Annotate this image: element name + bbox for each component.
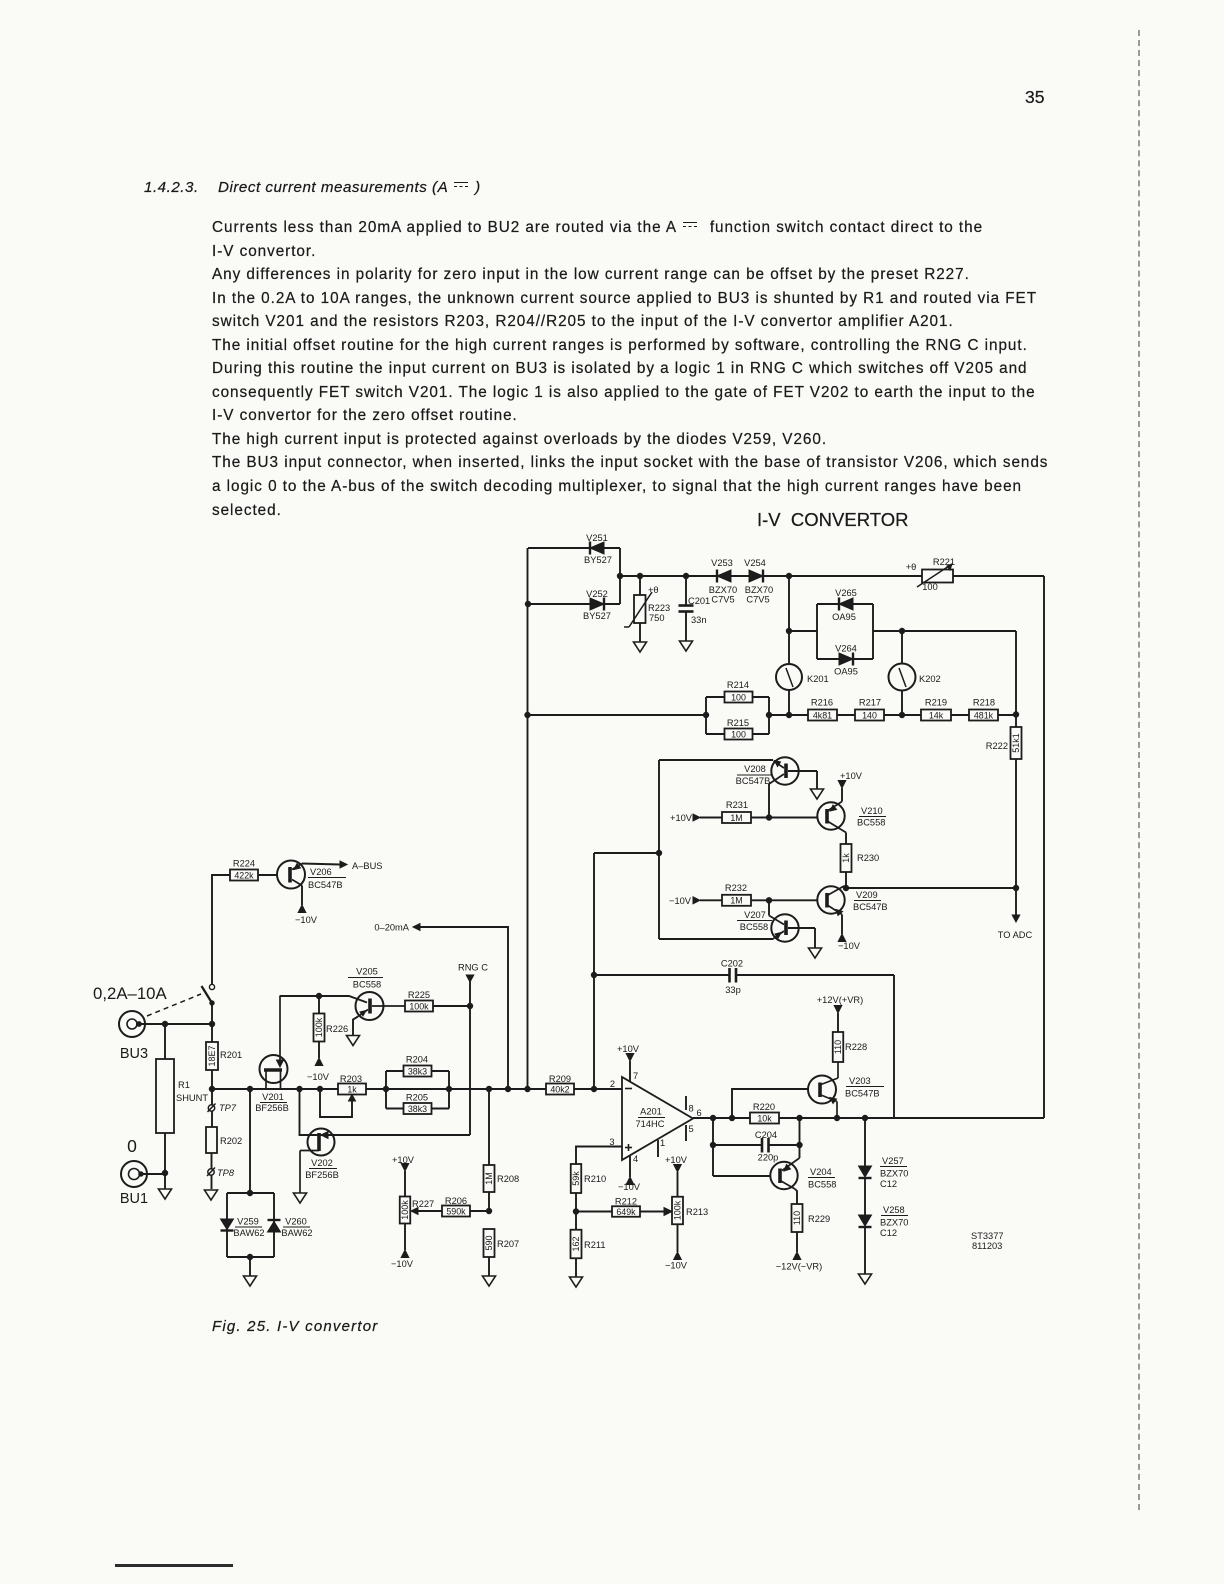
transistor V206 BC547B bbox=[277, 861, 346, 906]
wire RNG C vertical bbox=[469, 981, 471, 1135]
resistor R210 59k bbox=[571, 1164, 606, 1193]
diode block V259/V260 frame bbox=[227, 1192, 274, 1194]
junction loop to bus bbox=[617, 573, 622, 578]
wire K201 riser upper bbox=[788, 576, 790, 664]
wire R211 to ground bbox=[575, 1259, 577, 1278]
ground V208 bbox=[811, 789, 824, 799]
wire R219-R218 bbox=[951, 714, 969, 716]
wire node to TO ADC bbox=[846, 887, 1016, 889]
diode V252 BY527 bbox=[583, 589, 611, 621]
svg-text:−10V: −10V bbox=[665, 1261, 688, 1271]
capacitor C201 33n bbox=[679, 576, 711, 641]
wire top loop lower branch bbox=[528, 603, 620, 605]
FET V202 BF256B bbox=[300, 1129, 339, 1194]
junction K202 y715 bbox=[899, 712, 904, 717]
svg-text:TP8: TP8 bbox=[217, 1168, 235, 1178]
svg-text:8: 8 bbox=[689, 1104, 694, 1114]
resistor R214 100 bbox=[725, 680, 753, 703]
resistor R225 100k bbox=[405, 990, 433, 1012]
svg-text:R201: R201 bbox=[220, 1050, 242, 1060]
resistor R217 140 bbox=[855, 698, 884, 721]
pin 7 +10V bbox=[617, 1044, 640, 1082]
trimmer R221 100 bbox=[906, 557, 955, 592]
diode V251 BY527 bbox=[584, 533, 612, 565]
svg-text:0–20mA: 0–20mA bbox=[374, 923, 409, 933]
junction V202 drain bbox=[297, 1086, 302, 1091]
junction K201 y715 bbox=[786, 712, 791, 717]
ground R211 bbox=[570, 1277, 583, 1287]
svg-text:−10V: −10V bbox=[618, 1182, 641, 1192]
junction switch bottom bbox=[209, 1021, 214, 1026]
transistor V207 BC558 bbox=[737, 910, 815, 948]
resistor R201 18E7 bbox=[206, 1042, 242, 1070]
svg-text:100k: 100k bbox=[400, 1200, 410, 1220]
junction R204 block left bbox=[383, 1086, 388, 1091]
wire top loop upper branch bbox=[528, 547, 620, 549]
svg-text:140: 140 bbox=[862, 710, 877, 720]
zener V258 BZX70 C12 bbox=[859, 1205, 909, 1238]
junction clamp rail y853 bbox=[656, 850, 661, 855]
junction V204 emitter riser bbox=[797, 1115, 802, 1120]
wire node to TP7/R202 bbox=[211, 1089, 213, 1127]
svg-text:3: 3 bbox=[609, 1137, 614, 1147]
junction K201 riser bbox=[786, 573, 791, 578]
wire clamp bottom y939 bbox=[659, 938, 774, 940]
ground C201 bbox=[680, 641, 693, 651]
svg-text:0: 0 bbox=[127, 1136, 137, 1156]
wire main input bus bbox=[212, 1088, 622, 1090]
svg-text:C7V5: C7V5 bbox=[746, 595, 769, 605]
svg-text:R203: R203 bbox=[340, 1074, 362, 1084]
preset R227 100k bbox=[400, 1171, 434, 1250]
svg-text:R210: R210 bbox=[584, 1174, 606, 1184]
wire R202 to TP8 bbox=[211, 1153, 213, 1189]
wire output bus bbox=[693, 1117, 1044, 1119]
wire BU3 to switch bbox=[139, 1023, 212, 1025]
wire block to R216 bbox=[769, 714, 808, 716]
wire left feedback rail bbox=[527, 548, 529, 1089]
wire y853 to inverting rail bbox=[594, 852, 659, 854]
relay K201 bbox=[776, 664, 829, 690]
net +12V(+VR) bbox=[817, 995, 864, 1013]
wire output to C204/V204 bbox=[712, 1118, 714, 1176]
junction C201 bbox=[683, 573, 688, 578]
resistor R212 649k bbox=[612, 1197, 640, 1217]
svg-text:+10V: +10V bbox=[665, 1155, 688, 1165]
wire R231 to V210 base bbox=[751, 817, 818, 819]
junction R226 bbox=[316, 993, 321, 998]
svg-text:C201: C201 bbox=[688, 596, 710, 606]
svg-text:−10V: −10V bbox=[838, 941, 861, 951]
junction C204 right bbox=[797, 1142, 802, 1147]
junction output node bbox=[710, 1115, 715, 1120]
wire inner rail upper bbox=[1015, 631, 1017, 727]
ground V205 bbox=[347, 1036, 360, 1046]
svg-text:V251: V251 bbox=[586, 533, 608, 543]
wire inner rail lower bbox=[1015, 759, 1017, 888]
wire R201 to node bbox=[211, 1070, 213, 1089]
svg-text:BZX70: BZX70 bbox=[709, 585, 737, 595]
resistor R224 422k bbox=[230, 859, 258, 881]
node TO ADC output bbox=[998, 888, 1033, 940]
svg-text:V209: V209 bbox=[856, 890, 878, 900]
junction inverting rail bus bbox=[591, 1086, 596, 1091]
svg-text:BY527: BY527 bbox=[584, 555, 612, 565]
transistor V209 BC547B bbox=[817, 886, 887, 934]
junction R1 top bbox=[162, 1021, 167, 1026]
wire V208 base riser bbox=[768, 784, 770, 818]
net -10V V209 bbox=[838, 934, 861, 951]
wire clamp rail x659 bbox=[658, 760, 660, 939]
svg-text:BC547B: BC547B bbox=[845, 1089, 880, 1099]
svg-text:R214: R214 bbox=[727, 680, 749, 690]
net -12V(-VR) bbox=[776, 1252, 823, 1272]
svg-text:R230: R230 bbox=[857, 853, 879, 863]
resistor R205 38k3 bbox=[404, 1093, 432, 1115]
svg-text:R219: R219 bbox=[925, 698, 947, 708]
resistor R228 110 bbox=[833, 1013, 867, 1062]
svg-text:750: 750 bbox=[649, 613, 665, 623]
parallel block R204/R205 frame bbox=[385, 1071, 387, 1109]
svg-text:V207: V207 bbox=[744, 910, 766, 920]
svg-text:BAW62: BAW62 bbox=[233, 1228, 264, 1238]
svg-text:OA95: OA95 bbox=[834, 667, 858, 677]
junction V203 base riser bbox=[729, 1115, 734, 1120]
junction RNG C / R225 bbox=[467, 1003, 472, 1008]
resistor R226 100k bbox=[314, 996, 349, 1058]
net 0-20mA bbox=[374, 923, 420, 933]
svg-text:100: 100 bbox=[731, 692, 746, 702]
svg-text:V201: V201 bbox=[262, 1092, 284, 1102]
diode V264 OA95 bbox=[834, 644, 858, 677]
svg-text:BZX70: BZX70 bbox=[880, 1169, 908, 1179]
svg-text:−10V: −10V bbox=[307, 1072, 330, 1082]
svg-text:R229: R229 bbox=[808, 1214, 830, 1224]
resistor R206 590k bbox=[442, 1196, 470, 1217]
svg-text:0,2A–10A: 0,2A–10A bbox=[93, 984, 168, 1003]
ground V259/V260 bbox=[244, 1276, 257, 1286]
junction block bottom bbox=[247, 1254, 252, 1259]
pin 3 wire bbox=[576, 1147, 622, 1165]
svg-text:V205: V205 bbox=[356, 967, 378, 977]
svg-text:V257: V257 bbox=[882, 1156, 904, 1166]
testpoint TP7 bbox=[208, 1103, 237, 1113]
net -10V R227 bbox=[391, 1250, 414, 1269]
figure caption bbox=[212, 1318, 378, 1335]
op-amp A201 714HC bbox=[609, 1071, 701, 1164]
wire V204 base bbox=[713, 1175, 770, 1177]
svg-text:422k: 422k bbox=[234, 870, 254, 880]
svg-text:4k81: 4k81 bbox=[813, 710, 832, 720]
junction R206/R207/R208 bbox=[486, 1208, 491, 1213]
resistor R209 40k2 bbox=[546, 1074, 574, 1095]
scan artifact: right edge dashed line bbox=[1138, 30, 1140, 1510]
svg-text:R207: R207 bbox=[497, 1239, 519, 1249]
svg-text:A201: A201 bbox=[640, 1107, 662, 1117]
junction K201 y631 bbox=[786, 628, 791, 633]
wire K202 lower bbox=[901, 690, 903, 715]
svg-text:R202: R202 bbox=[220, 1136, 242, 1146]
svg-text:R225: R225 bbox=[408, 990, 430, 1000]
wire y715 from left rail bbox=[528, 714, 707, 716]
wire R223 to ground bbox=[639, 623, 641, 642]
relay K202 bbox=[889, 664, 941, 691]
svg-text:1M: 1M bbox=[484, 1172, 494, 1185]
zener V257 BZX70 C12 bbox=[859, 1156, 909, 1189]
svg-text:7: 7 bbox=[633, 1071, 638, 1081]
wire R210 to node bbox=[575, 1193, 577, 1230]
svg-text:110: 110 bbox=[833, 1040, 843, 1054]
resistor R231 1M bbox=[722, 800, 751, 823]
svg-text:BU3: BU3 bbox=[120, 1046, 148, 1062]
junction R203 wiper tap bbox=[317, 1086, 322, 1091]
svg-text:R209: R209 bbox=[549, 1074, 571, 1084]
svg-text:R228: R228 bbox=[845, 1042, 867, 1052]
svg-text:C12: C12 bbox=[880, 1228, 897, 1238]
FET V201 BF256B bbox=[255, 996, 289, 1114]
svg-text:1k: 1k bbox=[347, 1084, 357, 1094]
svg-text:TO ADC: TO ADC bbox=[998, 930, 1033, 940]
svg-text:5: 5 bbox=[689, 1124, 694, 1134]
net -10V R213 bbox=[665, 1252, 688, 1271]
svg-text:649k: 649k bbox=[616, 1207, 636, 1217]
svg-text:+θ: +θ bbox=[906, 562, 917, 572]
trimmer R203 1k bbox=[338, 1074, 366, 1101]
junction R208 riser bbox=[486, 1086, 491, 1091]
svg-text:1M: 1M bbox=[730, 896, 742, 906]
junction 0-20mA bus bbox=[505, 1086, 510, 1091]
wire V259 riser bbox=[249, 1089, 251, 1193]
svg-text:BC547B: BC547B bbox=[853, 902, 888, 912]
svg-text:V264: V264 bbox=[835, 644, 857, 654]
resistor R229 110 bbox=[792, 1204, 831, 1252]
wire +10V to R231 bbox=[700, 817, 722, 819]
svg-text:R221: R221 bbox=[933, 557, 955, 567]
resistor R207 590 bbox=[484, 1229, 520, 1276]
junction inner rail y715 bbox=[1013, 712, 1018, 717]
svg-text:K202: K202 bbox=[919, 674, 941, 684]
wire switch up to R224 bbox=[212, 875, 230, 985]
wire V257 riser bbox=[864, 1118, 866, 1166]
svg-text:BF256B: BF256B bbox=[255, 1103, 289, 1113]
wire node to R212 bbox=[576, 1211, 612, 1213]
transistor V210 BC558 bbox=[817, 788, 886, 844]
junction K202 riser bbox=[899, 628, 904, 633]
svg-text:R231: R231 bbox=[726, 800, 748, 810]
junction V203 emitter bbox=[834, 1115, 839, 1120]
resistor R216 4k81 bbox=[808, 698, 837, 721]
transistor V203 BC547B bbox=[808, 1062, 884, 1118]
svg-text:1: 1 bbox=[660, 1138, 665, 1148]
junction R214 block left bbox=[703, 712, 708, 717]
svg-text:R204: R204 bbox=[406, 1055, 428, 1065]
svg-text:R226: R226 bbox=[326, 1024, 348, 1034]
resistor R208 1M bbox=[484, 1089, 520, 1211]
junction C204 left bbox=[710, 1142, 715, 1147]
junction V257 riser bbox=[862, 1115, 867, 1120]
svg-text:BY527: BY527 bbox=[583, 611, 611, 621]
svg-text:10k: 10k bbox=[757, 1113, 772, 1123]
testpoint TP8 bbox=[207, 1168, 235, 1179]
wire K202 riser bbox=[901, 631, 903, 664]
svg-text:R222: R222 bbox=[986, 741, 1008, 751]
svg-text:220p: 220p bbox=[758, 1153, 779, 1163]
svg-text:V206: V206 bbox=[310, 867, 332, 877]
svg-text:BZX70: BZX70 bbox=[745, 585, 773, 595]
svg-text:R217: R217 bbox=[859, 698, 881, 708]
svg-text:+10V: +10V bbox=[617, 1044, 640, 1054]
svg-text:BC558: BC558 bbox=[808, 1180, 836, 1190]
net +10V V210 bbox=[838, 771, 863, 788]
svg-text:590: 590 bbox=[484, 1235, 494, 1250]
wire -10V to R232 bbox=[700, 899, 722, 901]
wire BU1 to junction bbox=[141, 1173, 165, 1175]
svg-text:2: 2 bbox=[610, 1079, 615, 1089]
resistor R215 100 bbox=[725, 718, 753, 740]
svg-text:R216: R216 bbox=[811, 698, 833, 708]
wire gate net y996 bbox=[280, 996, 367, 1003]
scan artifact: bottom-left rule bbox=[115, 1564, 233, 1567]
wire R217-R219 bbox=[884, 714, 921, 716]
junction left rail y715 bbox=[525, 712, 530, 717]
svg-text:V260: V260 bbox=[285, 1217, 307, 1227]
net +10V R227 bbox=[392, 1155, 415, 1171]
body text bbox=[212, 216, 1072, 522]
wire V257 to V258 bbox=[864, 1178, 866, 1215]
svg-text:R215: R215 bbox=[727, 718, 749, 728]
wire y631 to inner rail bbox=[873, 630, 1016, 632]
connector BU1 bbox=[120, 1161, 148, 1207]
pin 1 stub bbox=[657, 1140, 659, 1157]
svg-text:V253: V253 bbox=[711, 558, 733, 568]
wire R206 to node bbox=[470, 1210, 489, 1212]
svg-text:K201: K201 bbox=[807, 674, 829, 684]
svg-text:1k: 1k bbox=[841, 853, 851, 863]
resistor R222 51k1 bbox=[986, 727, 1022, 759]
wire right outer rail bbox=[1043, 576, 1045, 1118]
svg-text:BC558: BC558 bbox=[857, 818, 885, 828]
wire switch down to R201 bbox=[211, 1003, 213, 1042]
svg-text:V254: V254 bbox=[744, 558, 766, 568]
svg-text:V203: V203 bbox=[849, 1076, 871, 1086]
svg-text:V252: V252 bbox=[586, 589, 608, 599]
preset R213 100k bbox=[672, 1172, 708, 1252]
junction R204 block right bbox=[446, 1086, 451, 1091]
svg-text:14k: 14k bbox=[929, 710, 944, 720]
net A-BUS bbox=[302, 861, 383, 871]
svg-text:V259: V259 bbox=[237, 1217, 259, 1227]
resistor R219 14k bbox=[921, 698, 951, 721]
ground TP8 bbox=[205, 1190, 218, 1200]
wire R203 wiper loop bbox=[320, 1089, 352, 1117]
page number bbox=[1025, 87, 1044, 108]
junction BU1 bbox=[162, 1170, 167, 1175]
wire K201 lower bbox=[788, 690, 790, 715]
svg-text:590k: 590k bbox=[446, 1206, 466, 1216]
ground V202 bbox=[294, 1193, 307, 1203]
svg-text:100k: 100k bbox=[314, 1017, 324, 1037]
section heading bbox=[144, 179, 481, 196]
net -10V R226 bbox=[307, 1058, 330, 1082]
wire R206 wiper arrow bbox=[411, 1208, 442, 1215]
junction left rail V252 bbox=[525, 601, 530, 606]
svg-text:100: 100 bbox=[731, 729, 746, 739]
svg-text:33n: 33n bbox=[691, 615, 707, 625]
svg-text:100k: 100k bbox=[409, 1001, 429, 1011]
svg-text:BU1: BU1 bbox=[120, 1191, 148, 1207]
wire R212 wiper arrow bbox=[640, 1208, 672, 1216]
svg-text:110: 110 bbox=[792, 1211, 802, 1225]
junction input node bbox=[209, 1086, 214, 1091]
svg-text:6: 6 bbox=[697, 1108, 702, 1118]
ground R207 bbox=[483, 1276, 496, 1286]
wire V203 base bbox=[732, 1089, 808, 1118]
wire loop right vertical bbox=[619, 548, 621, 604]
wire V207 base riser bbox=[768, 900, 770, 915]
wire y631 left stub bbox=[789, 630, 817, 632]
wire R218 to inner rail bbox=[998, 714, 1016, 716]
shunt R1 bbox=[156, 1024, 208, 1189]
svg-text:C202: C202 bbox=[721, 959, 743, 969]
svg-text:R220: R220 bbox=[753, 1102, 775, 1112]
svg-text:+10V: +10V bbox=[840, 771, 863, 781]
svg-text:R227: R227 bbox=[412, 1199, 434, 1209]
junction V208 base bbox=[766, 815, 771, 820]
resistor R218 481k bbox=[969, 698, 998, 721]
wire inverting node rail x594 bbox=[593, 853, 595, 1089]
svg-text:38k3: 38k3 bbox=[408, 1066, 427, 1076]
svg-text:BZX70: BZX70 bbox=[880, 1218, 908, 1228]
transistor V208 BC547B bbox=[736, 757, 817, 789]
svg-text:−10V: −10V bbox=[669, 896, 692, 906]
parallel block R214/R215 frame bbox=[705, 697, 707, 734]
svg-text:714HC: 714HC bbox=[636, 1119, 665, 1129]
svg-text:R208: R208 bbox=[497, 1174, 519, 1184]
svg-text:V202: V202 bbox=[311, 1158, 333, 1168]
svg-text:OA95: OA95 bbox=[832, 612, 856, 622]
transistor V205 BC558 bbox=[348, 967, 405, 1036]
resistor R204 38k3 bbox=[404, 1055, 432, 1077]
capacitor C204 220p bbox=[713, 1130, 800, 1163]
junction V259 riser bbox=[247, 1086, 252, 1091]
svg-text:BF256B: BF256B bbox=[305, 1170, 339, 1180]
svg-text:V204: V204 bbox=[810, 1167, 832, 1177]
wire C202 right riser bbox=[893, 975, 895, 1118]
junction R214 block right bbox=[766, 712, 771, 717]
svg-text:+θ: +θ bbox=[648, 585, 659, 595]
svg-text:V208: V208 bbox=[744, 764, 766, 774]
svg-text:R206: R206 bbox=[445, 1196, 467, 1206]
svg-text:RNG C: RNG C bbox=[458, 963, 488, 973]
svg-text:SHUNT: SHUNT bbox=[176, 1093, 208, 1103]
svg-text:C12: C12 bbox=[880, 1179, 897, 1189]
wire V202 drain riser bbox=[300, 1089, 471, 1135]
svg-text:BC547B: BC547B bbox=[308, 880, 343, 890]
svg-text:R211: R211 bbox=[584, 1240, 606, 1250]
wire 0-20mA bbox=[420, 927, 508, 1089]
junction TO ADC bbox=[1013, 885, 1018, 890]
connector BU3 bbox=[119, 1011, 148, 1062]
capacitor C202 33p bbox=[594, 959, 894, 996]
svg-text:481k: 481k bbox=[974, 710, 994, 720]
svg-text:V265: V265 bbox=[835, 588, 857, 598]
svg-text:C204: C204 bbox=[755, 1130, 777, 1140]
svg-text:59k: 59k bbox=[571, 1171, 581, 1186]
svg-text:BC547B: BC547B bbox=[736, 776, 771, 786]
svg-text:R205: R205 bbox=[406, 1093, 428, 1103]
svg-text:V258: V258 bbox=[883, 1205, 905, 1215]
junction left rail bus bbox=[525, 1086, 530, 1091]
